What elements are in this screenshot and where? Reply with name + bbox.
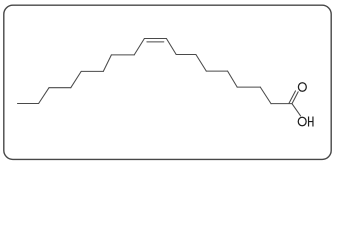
bond C3-C2 xyxy=(260,87,271,104)
double bond C10=C9 inner line xyxy=(147,41,164,43)
bond C2-C1 xyxy=(271,103,292,105)
double bond C1=O inner line xyxy=(289,91,296,103)
bond C16-C15 xyxy=(49,87,71,89)
bond C9-C8 xyxy=(166,39,176,55)
bond C4-C3 xyxy=(237,86,260,88)
bond C14-C13 xyxy=(81,70,103,72)
bond C15-C14 xyxy=(71,71,81,87)
double bond C1=O outer line xyxy=(292,92,298,104)
bond C8-C7 xyxy=(176,54,196,56)
atom label O of hydroxyl OH xyxy=(298,117,306,126)
double bond C10=C9 main line xyxy=(144,38,166,40)
bond C12-C11 xyxy=(111,54,134,56)
atom label O (carbonyl oxygen) xyxy=(298,83,306,92)
bond C18-C17 xyxy=(18,103,39,105)
bond C5-C4 xyxy=(228,71,238,87)
bond C13-C12 xyxy=(103,55,111,72)
bond C7-C6 xyxy=(196,55,206,72)
bond C6-C5 xyxy=(206,70,227,72)
bond C17-C16 xyxy=(39,88,49,104)
bond C11-C10 xyxy=(134,39,144,55)
atom label H of hydroxyl OH xyxy=(309,117,313,127)
bond C1-OH xyxy=(292,104,301,116)
